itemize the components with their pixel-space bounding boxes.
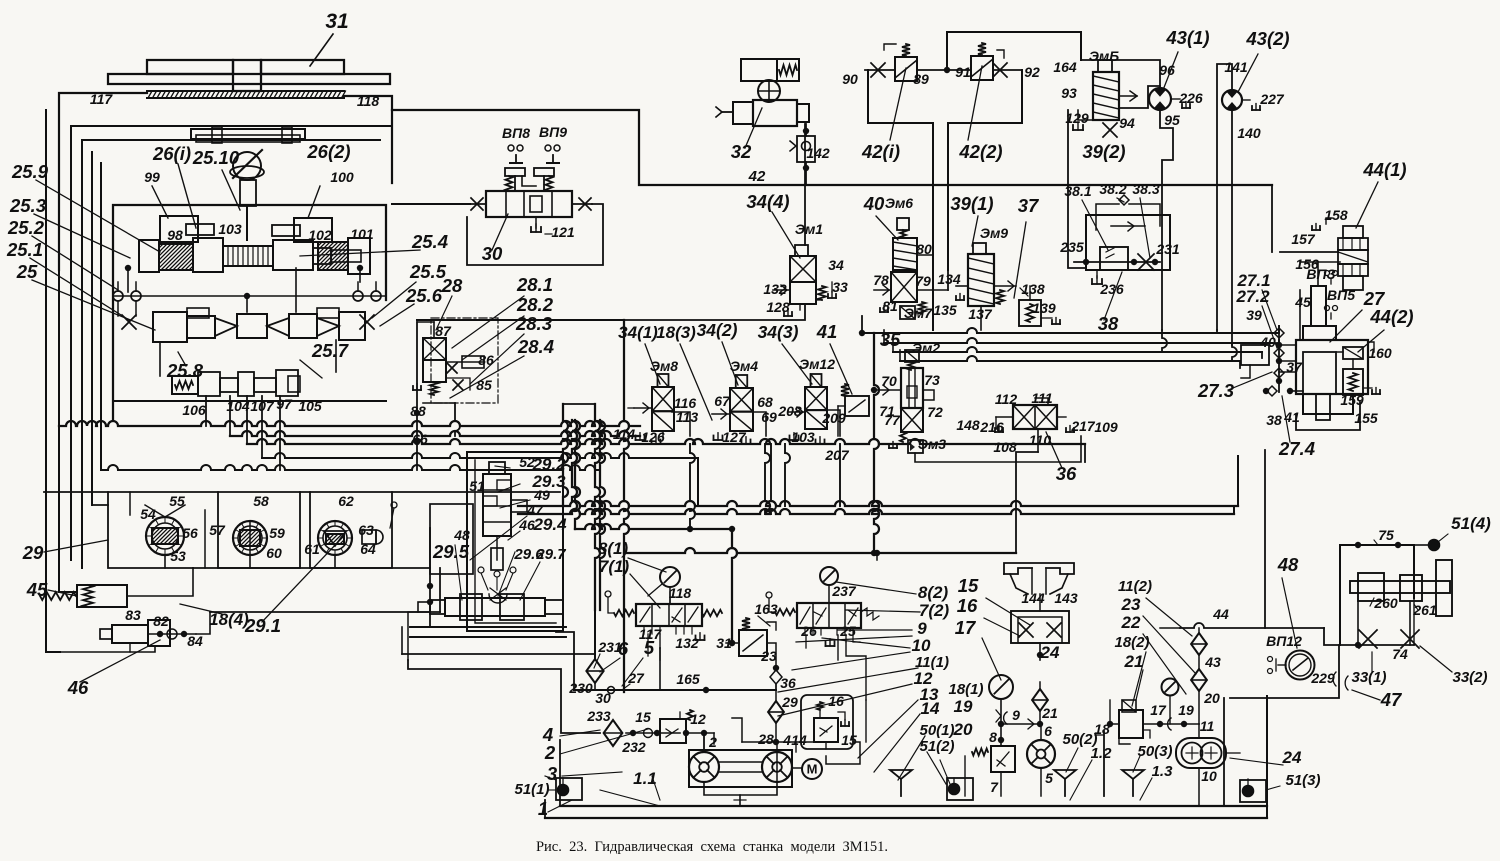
filters 43 — [1191, 633, 1207, 655]
leader 27.3 — [1228, 372, 1272, 390]
svg-text:141: 141 — [1224, 59, 1248, 75]
clamp wires — [145, 505, 165, 517]
VP12 box frame — [1230, 645, 1339, 698]
relief valve 42(2) — [971, 56, 993, 80]
check valves pair right — [353, 291, 363, 301]
leader 48 47 — [1282, 578, 1297, 648]
valve 36 body — [1013, 405, 1057, 429]
valve 7(1) springs — [614, 610, 634, 616]
svg-text:Эм7: Эм7 — [904, 305, 933, 321]
svg-text:87: 87 — [435, 323, 452, 339]
svg-text:107: 107 — [250, 398, 275, 414]
pin 62 leader — [391, 502, 397, 508]
svg-text:118: 118 — [669, 585, 692, 601]
svg-text:23: 23 — [1121, 595, 1141, 614]
wire x690 column — [690, 444, 695, 529]
svg-text:15: 15 — [635, 709, 651, 725]
leader 29 — [44, 540, 108, 552]
leaders 4 2 3 counters — [560, 730, 600, 736]
svg-text:Эм4: Эм4 — [730, 358, 758, 374]
svg-text:88: 88 — [410, 403, 426, 419]
leader 25.10 — [222, 170, 240, 210]
svg-text:94: 94 — [1119, 115, 1135, 131]
wire 44 line to VP12 — [1180, 623, 1324, 628]
leader 25.5 25.6 — [372, 282, 416, 318]
relief 31 163 — [739, 630, 767, 656]
solenoid Em4 34(2) — [736, 375, 748, 388]
bus E line y470 — [101, 465, 600, 470]
svg-text:49: 49 — [533, 487, 550, 503]
svg-text:134: 134 — [937, 271, 961, 287]
svg-text:51(1): 51(1) — [514, 781, 549, 798]
svg-text:18(2): 18(2) — [1114, 634, 1149, 651]
svg-text:232: 232 — [621, 739, 646, 755]
svg-text:72: 72 — [927, 404, 943, 420]
svg-text:79: 79 — [915, 273, 931, 289]
svg-text:26(2): 26(2) — [306, 141, 350, 162]
29 pilot pins — [478, 567, 484, 573]
wire 30 inlet from machine — [392, 203, 470, 205]
wire 48 drop — [1264, 450, 1266, 628]
port column 27.x — [1278, 326, 1280, 392]
svg-text:60: 60 — [266, 545, 282, 561]
valve 44(1) stack — [1343, 226, 1363, 238]
svg-text:109: 109 — [1094, 419, 1118, 435]
valve 30 drain 121 — [535, 217, 537, 228]
svg-text:64: 64 — [360, 541, 376, 557]
wire 42 loop — [868, 70, 933, 123]
svg-text:67: 67 — [714, 393, 731, 409]
svg-text:Эм2: Эм2 — [912, 340, 940, 356]
leader 18(3) — [680, 344, 712, 420]
solenoid Em12 34(3) — [811, 374, 822, 387]
valve 38 inner — [1100, 247, 1128, 270]
leader 32 — [745, 108, 762, 148]
valve section 78 79 — [891, 272, 917, 302]
svg-text:25.1: 25.1 — [6, 239, 43, 260]
filter 29b — [768, 701, 784, 723]
leader 18(4) — [180, 604, 222, 614]
wire 7(1) feeds — [659, 648, 661, 660]
svg-text:25.4: 25.4 — [411, 231, 448, 252]
svg-text:99: 99 — [144, 169, 160, 185]
leaders 8(1) 7(1) — [628, 558, 666, 572]
svg-text:4: 4 — [782, 732, 791, 748]
svg-text:132: 132 — [763, 281, 787, 297]
svg-text:80: 80 — [916, 241, 932, 257]
svg-text:25.10: 25.10 — [192, 147, 240, 168]
svg-text:158: 158 — [1324, 207, 1348, 223]
wire 1.2 column — [1103, 731, 1105, 796]
svg-text:25.7: 25.7 — [311, 340, 350, 361]
svg-text:98: 98 — [167, 227, 183, 243]
spool assembly top 25.4 row — [139, 240, 159, 272]
svg-text:111: 111 — [1031, 390, 1052, 406]
svg-text:28.2: 28.2 — [516, 294, 554, 315]
svg-text:38.3: 38.3 — [1132, 181, 1159, 197]
svg-text:15: 15 — [841, 732, 857, 748]
svg-text:25.2: 25.2 — [7, 217, 45, 238]
svg-text:137: 137 — [968, 306, 993, 322]
valve 44(2) — [1343, 347, 1363, 359]
svg-text:Эм6: Эм6 — [885, 195, 913, 211]
relief 41 — [845, 396, 869, 416]
funnels 50(x) — [890, 770, 912, 779]
valve 7(1) body — [636, 604, 702, 626]
leader 34(4) — [772, 212, 800, 258]
svg-text:50(3): 50(3) — [1137, 743, 1172, 760]
leader 38.1 38.2 38.3 — [1082, 200, 1108, 250]
wires under spools — [205, 396, 207, 426]
svg-text:ВП12: ВП12 — [1266, 633, 1302, 649]
valve 7(2) body — [797, 603, 861, 628]
svg-text:19: 19 — [954, 697, 973, 716]
svg-text:92: 92 — [1024, 64, 1040, 80]
svg-text:110: 110 — [1029, 432, 1052, 448]
bus y553 — [624, 548, 1016, 553]
svg-text:132: 132 — [675, 635, 699, 651]
svg-text:164: 164 — [1053, 59, 1077, 75]
svg-text:47: 47 — [526, 502, 544, 518]
svg-text:159: 159 — [1340, 392, 1364, 408]
svg-text:ВП5: ВП5 — [1327, 287, 1355, 303]
svg-text:230: 230 — [568, 680, 593, 696]
wire Em9 down — [980, 306, 982, 330]
svg-text:46: 46 — [518, 517, 535, 533]
svg-text:39(1): 39(1) — [950, 193, 993, 214]
svg-text:104: 104 — [226, 398, 250, 414]
svg-text:51(2): 51(2) — [919, 738, 954, 755]
svg-text:Эм3: Эм3 — [918, 436, 946, 452]
cylinder 46 83 — [112, 625, 148, 643]
svg-text:74: 74 — [1392, 646, 1408, 662]
valve 30 plungers — [505, 168, 525, 176]
valve 30 body — [486, 191, 572, 217]
limit switches VP8 VP9 — [508, 145, 514, 151]
svg-text:231: 231 — [597, 639, 622, 655]
svg-text:17: 17 — [955, 617, 977, 638]
svg-text:28.1: 28.1 — [516, 274, 553, 295]
svg-text:32: 32 — [731, 141, 752, 162]
svg-text:229: 229 — [1310, 670, 1335, 686]
svg-text:235: 235 — [1059, 239, 1084, 255]
node 82 84 — [157, 631, 163, 637]
wire 80 — [932, 255, 934, 330]
svg-text:62: 62 — [338, 493, 354, 509]
svg-text:101: 101 — [350, 226, 374, 242]
svg-text:7: 7 — [990, 779, 999, 795]
relief 45 — [77, 585, 127, 607]
wire 157 loop — [1280, 251, 1338, 253]
leaders 15 16 17 — [986, 598, 1030, 625]
bus left stubs — [861, 316, 863, 333]
svg-text:11(2): 11(2) — [1118, 578, 1152, 595]
svg-text:108: 108 — [993, 439, 1017, 455]
pivot wheel 25.10 — [233, 152, 261, 180]
wire 42 line long — [805, 184, 1272, 186]
wire 110 down — [1016, 452, 1038, 553]
svg-text:127: 127 — [722, 429, 747, 445]
leader 27.1 27.2 — [1262, 290, 1277, 330]
svg-text:Рис. 23. Гидравлическая схема: Рис. 23. Гидравлическая схема станка мод… — [536, 839, 888, 855]
leaders 8(2) 7(2) 9 10 — [836, 582, 916, 594]
gauge 8(1) — [660, 567, 680, 587]
svg-text:39(2): 39(2) — [1082, 141, 1125, 162]
solenoid Em8 34(1) — [658, 374, 669, 387]
wire 39(2) to motor — [1119, 86, 1160, 108]
svg-text:5: 5 — [1045, 770, 1053, 786]
29 bottom spool — [445, 598, 545, 616]
svg-text:37: 37 — [1018, 195, 1040, 216]
svg-text:73: 73 — [924, 372, 940, 388]
wire x785 column — [785, 444, 790, 506]
ports 70 71 — [874, 389, 901, 391]
wire 141 to bus — [1216, 330, 1218, 333]
solenoid valve Em9 39(1) — [973, 243, 986, 254]
svg-text:7(1): 7(1) — [599, 557, 630, 576]
svg-text:36: 36 — [780, 675, 796, 691]
wire 42 top — [947, 32, 1081, 70]
bus E line y458 — [262, 453, 698, 458]
svg-text:24: 24 — [1040, 643, 1060, 662]
svg-text:27: 27 — [627, 670, 645, 686]
svg-text:44(2): 44(2) — [1369, 306, 1413, 327]
svg-text:25.8: 25.8 — [166, 360, 204, 381]
throttle left 25.6 — [122, 315, 136, 329]
svg-text:27: 27 — [1363, 288, 1386, 309]
svg-text:50(1): 50(1) — [919, 722, 954, 739]
element 85 — [453, 380, 463, 390]
svg-text:16: 16 — [828, 693, 844, 709]
svg-text:12: 12 — [690, 711, 706, 727]
svg-text:227: 227 — [1259, 91, 1285, 107]
switch VP5 — [1325, 306, 1330, 311]
column tops join — [563, 403, 595, 405]
wire Em1 down to bus — [624, 304, 805, 320]
svg-text:128: 128 — [766, 299, 790, 315]
svg-text:77: 77 — [884, 412, 901, 428]
wire x765 column — [765, 444, 770, 514]
leader 46 — [80, 640, 160, 682]
svg-text:9: 9 — [1012, 707, 1020, 723]
svg-text:112: 112 — [995, 391, 1018, 407]
wire x840 column — [839, 444, 841, 506]
relief valve 42(1) — [895, 57, 917, 81]
leader 27.4 — [1282, 396, 1290, 442]
wire x732 7(1) feed — [732, 529, 737, 643]
svg-text:78: 78 — [873, 272, 889, 288]
38 drain — [1096, 270, 1098, 278]
leader 51(4) 75 260 261 — [1438, 534, 1448, 542]
wire 96 up — [1081, 60, 1160, 88]
check valves pair left — [113, 291, 123, 301]
svg-text:26: 26 — [800, 623, 817, 639]
wire 7(2) drains to 16 — [846, 642, 866, 700]
thermometer 51(3) — [1243, 786, 1254, 797]
bus E left stub — [455, 403, 460, 436]
svg-text:2: 2 — [544, 742, 556, 763]
leader 51(1) 1 3 — [548, 789, 556, 791]
wire 45 stem — [1299, 290, 1301, 340]
svg-text:40: 40 — [1259, 334, 1276, 350]
wire 35 supply — [874, 333, 879, 553]
svg-text:ВПЗ: ВПЗ — [1306, 266, 1335, 282]
valve 35 lower X — [901, 408, 923, 432]
svg-text:11: 11 — [1200, 718, 1215, 734]
wire 148 — [995, 417, 997, 429]
leader 44(1) — [1356, 182, 1378, 228]
svg-text:18(1): 18(1) — [948, 681, 983, 698]
svg-text:90: 90 — [842, 71, 858, 87]
svg-text:216: 216 — [979, 419, 1004, 435]
svg-text:91: 91 — [955, 64, 971, 80]
svg-text:18(4): 18(4) — [209, 610, 249, 629]
solenoid pump EmB 39(2) — [1093, 72, 1119, 120]
svg-text:148: 148 — [956, 417, 980, 433]
check valve 30 — [608, 687, 615, 694]
label 31 leader — [310, 34, 333, 66]
svg-text:42(2): 42(2) — [958, 141, 1002, 162]
leader 34(1) — [645, 344, 660, 384]
leaders 231 6 5 27 — [594, 654, 600, 668]
check 232 — [644, 729, 653, 738]
leader 25.7 25.8 — [300, 360, 322, 378]
clamp box frames — [129, 492, 131, 515]
gauge 22 — [1162, 679, 1179, 696]
clamp cylinder 57-60 — [233, 521, 267, 555]
svg-text:29.7: 29.7 — [535, 546, 566, 563]
svg-text:29.1: 29.1 — [244, 615, 281, 636]
svg-text:102: 102 — [308, 227, 332, 243]
throttle box 139 — [1019, 300, 1041, 326]
leader 33(1) 33(2) — [1371, 652, 1373, 672]
wire 134 — [917, 289, 948, 291]
svg-text:43(1): 43(1) — [1165, 27, 1209, 48]
svg-text:29: 29 — [22, 542, 44, 563]
svg-text:44(1): 44(1) — [1362, 159, 1406, 180]
svg-text:26(i): 26(i) — [152, 143, 191, 164]
pump 6 — [1027, 740, 1055, 768]
bus line P3 — [893, 347, 1262, 352]
leader 42(1) 42(2) — [890, 68, 906, 140]
svg-text:143: 143 — [1054, 590, 1078, 606]
svg-text:42(i): 42(i) — [861, 141, 900, 162]
svg-text:1: 1 — [538, 798, 548, 819]
svg-text:20: 20 — [1203, 690, 1220, 706]
cyl 33 ports — [1357, 601, 1359, 645]
throttle right 25.5 — [360, 315, 374, 329]
svg-text:23: 23 — [760, 648, 777, 664]
wire y553 drop — [876, 553, 878, 560]
svg-text:Эм1: Эм1 — [795, 221, 823, 237]
wire 17 19 line — [1143, 723, 1199, 725]
cylinder 27 inner piston — [1303, 352, 1336, 394]
filter 231 — [586, 659, 603, 683]
wire 30 loop — [467, 204, 603, 265]
svg-text:85: 85 — [476, 377, 492, 393]
solenoid valve Em1 34(4) — [795, 245, 808, 256]
hydromotor 43(2) — [1222, 90, 1242, 110]
motor M — [792, 767, 801, 769]
machine outer frame — [59, 93, 147, 270]
svg-text:43(2): 43(2) — [1245, 28, 1289, 49]
svg-text:6: 6 — [1044, 723, 1052, 739]
svg-text:45: 45 — [26, 579, 48, 600]
svg-text:30: 30 — [595, 690, 611, 706]
svg-text:8(1): 8(1) — [598, 539, 629, 558]
svg-text:100: 100 — [330, 169, 354, 185]
svg-text:135: 135 — [933, 302, 957, 318]
svg-text:105: 105 — [298, 398, 322, 414]
block 28 dashed box — [431, 318, 498, 403]
table rack hatching — [147, 90, 344, 92]
leader 34(3) — [782, 344, 812, 384]
svg-text:34(2): 34(2) — [697, 320, 738, 340]
vert x624 — [624, 320, 629, 692]
svg-text:43: 43 — [1204, 654, 1221, 670]
wire 24 stem — [1039, 594, 1041, 611]
wire 140 — [1231, 110, 1233, 345]
svg-text:52: 52 — [519, 454, 535, 470]
pilot Em7 — [900, 306, 915, 319]
svg-text:237: 237 — [831, 583, 857, 599]
svg-text:27.2: 27.2 — [1235, 287, 1270, 306]
svg-text:68: 68 — [757, 394, 773, 410]
svg-text:53: 53 — [170, 548, 186, 564]
bus y492 left — [44, 491, 560, 493]
svg-text:59: 59 — [269, 525, 285, 541]
wheelhead inner box — [113, 205, 386, 420]
svg-text:1.3: 1.3 — [1152, 763, 1174, 780]
svg-text:37: 37 — [1286, 359, 1303, 375]
svg-text:126: 126 — [641, 429, 665, 445]
svg-text:40: 40 — [863, 193, 885, 214]
svg-text:157: 157 — [1291, 231, 1316, 247]
svg-text:57: 57 — [209, 522, 226, 538]
wire top long 118-32 — [392, 110, 805, 185]
svg-text:18(3): 18(3) — [656, 323, 696, 342]
bus line P1 — [862, 328, 1279, 333]
svg-text:34(1): 34(1) — [618, 323, 658, 342]
svg-text:21: 21 — [1041, 705, 1058, 721]
svg-text:31: 31 — [325, 10, 348, 33]
svg-text:16: 16 — [957, 595, 978, 616]
svg-text:24: 24 — [1282, 748, 1302, 767]
svg-text:42: 42 — [748, 168, 766, 185]
leaders 11(2) 23 22 18(2) 21 24 — [1146, 598, 1192, 636]
wire 33 drop from 7(2) — [837, 635, 839, 660]
shaft — [719, 761, 762, 763]
svg-text:83: 83 — [125, 607, 141, 623]
wire 12 down to pump — [703, 733, 705, 752]
thermometer 51(2) — [949, 784, 960, 795]
leader 138 — [1020, 288, 1028, 296]
svg-text:28.4: 28.4 — [517, 336, 554, 357]
svg-text:25: 25 — [16, 261, 38, 282]
check 36b — [770, 670, 782, 684]
wire rod up VP3 — [1317, 262, 1319, 286]
svg-text:51(3): 51(3) — [1285, 772, 1320, 789]
svg-text:118: 118 — [357, 93, 380, 109]
svg-text:19: 19 — [1178, 702, 1194, 718]
wire tank suction to 233 — [408, 660, 600, 733]
29 block inner rect 48 — [430, 504, 473, 574]
svg-text:ВП8: ВП8 — [502, 125, 530, 141]
pilot Em2 — [905, 350, 919, 362]
svg-text:46: 46 — [67, 677, 89, 698]
check valve 142 — [797, 136, 815, 162]
wire 165 left corner — [556, 632, 574, 690]
